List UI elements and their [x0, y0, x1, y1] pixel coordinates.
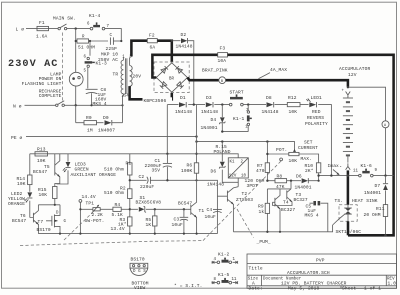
svg-text:1k: 1k — [259, 209, 265, 215]
svg-text:Title: Title — [249, 265, 263, 271]
transistor T2 — [237, 182, 239, 186]
svg-text:F2: F2 — [149, 32, 155, 38]
transistor T5 — [54, 162, 56, 175]
wire N line with switch — [25, 104, 123, 106]
transformer core — [124, 58, 126, 94]
svg-text:1N4007: 1N4007 — [98, 127, 115, 133]
svg-text:R7: R7 — [257, 163, 263, 169]
svg-text:PVP: PVP — [316, 257, 325, 263]
svg-text:MAX.: MAX. — [301, 156, 312, 162]
svg-text:1K: 1K — [146, 222, 152, 228]
svg-text:10uF: 10uF — [205, 214, 217, 220]
wire L line — [26, 29, 121, 41]
svg-text:POLARITY: POLARITY — [305, 121, 328, 127]
svg-text:10A: 10A — [218, 58, 227, 64]
svg-text:BC547: BC547 — [12, 218, 26, 224]
svg-text:20 OHM: 20 OHM — [364, 212, 381, 218]
resistor R6 — [196, 163, 198, 181]
resistor R14 — [28, 175, 32, 185]
capacitor C4 — [213, 208, 222, 210]
resistor R12 — [287, 103, 300, 107]
svg-text:BC547: BC547 — [178, 200, 192, 206]
svg-text:10K: 10K — [17, 181, 26, 187]
svg-text:BRAT_PINK: BRAT_PINK — [202, 67, 228, 73]
transistor T6 — [32, 213, 34, 223]
svg-text:TR: TR — [113, 72, 119, 78]
svg-text:BC327: BC327 — [294, 197, 308, 203]
svg-text:10K: 10K — [289, 109, 298, 115]
svg-text:5: 5 — [84, 70, 87, 74]
svg-text:R1: R1 — [126, 161, 132, 167]
capacitor C3 — [183, 208, 185, 210]
diode D0 — [112, 105, 123, 122]
wire PE line — [26, 136, 197, 138]
svg-text:BS170: BS170 — [37, 227, 51, 233]
svg-text:PE ø: PE ø — [11, 135, 23, 141]
bottom rail — [38, 233, 217, 235]
transistor T3 — [286, 190, 288, 199]
wire node row 141 — [197, 142, 295, 152]
svg-text:SW-POT.: SW-POT. — [85, 218, 105, 224]
fuse F3 — [218, 53, 228, 57]
svg-text:1N4001: 1N4001 — [201, 125, 218, 131]
connector circle B — [219, 77, 226, 84]
svg-text:MKS 4: MKS 4 — [93, 101, 107, 107]
bridge dashed box — [154, 62, 189, 93]
svg-text:C: C — [110, 34, 113, 38]
wire R8 row — [267, 180, 318, 182]
svg-text:10uF: 10uF — [172, 222, 184, 228]
left column wire — [29, 154, 31, 218]
resistor R10 — [316, 163, 320, 173]
thick wire F2 to bridge AC top — [157, 41, 172, 62]
svg-text:R4: R4 — [115, 202, 121, 208]
svg-text:1N4148: 1N4148 — [176, 44, 193, 50]
resistor R9 — [265, 203, 269, 213]
capacitor C8 — [86, 88, 98, 90]
svg-text:7: 7 — [107, 25, 110, 29]
fuse F1 — [37, 26, 49, 30]
main rail — [30, 154, 238, 158]
svg-text:KBPC3506: KBPC3506 — [144, 98, 167, 104]
capacitor C 225P — [114, 40, 122, 42]
svg-text:C2: C2 — [139, 174, 145, 180]
svg-text:D0: D0 — [103, 115, 109, 121]
svg-text:12V: 12V — [348, 72, 357, 78]
svg-text:10K: 10K — [37, 158, 46, 164]
svg-text:L ø: L ø — [16, 27, 25, 33]
diode D2 — [181, 38, 187, 43]
diode D3 — [206, 102, 213, 107]
svg-text:470: 470 — [256, 168, 265, 174]
wire row 180 — [130, 180, 218, 233]
bridge diode bottom-right — [177, 82, 184, 89]
bridge BR diamond — [156, 63, 187, 92]
svg-text:20V: 20V — [133, 73, 142, 79]
svg-text:35V: 35V — [152, 167, 161, 173]
thick wire secondary top to F2 — [131, 41, 147, 57]
svg-text:10K: 10K — [289, 158, 298, 164]
svg-text:C3: C3 — [174, 216, 180, 222]
svg-text:HEAT SINK: HEAT SINK — [352, 198, 378, 204]
svg-text:1N4148: 1N4148 — [262, 109, 279, 115]
svg-text:Sheet: Sheet — [342, 286, 356, 292]
diode D5 zener relay — [222, 142, 238, 183]
svg-text:1N4148: 1N4148 — [207, 181, 224, 187]
svg-text:ORANGE: ORANGE — [8, 201, 25, 207]
svg-text:VIEW: VIEW — [134, 285, 146, 291]
resistor R4 — [113, 207, 121, 211]
svg-text:D8: D8 — [266, 95, 272, 101]
bridge label KBPC3506 — [143, 97, 173, 103]
svg-text:R: R — [82, 35, 85, 39]
dashed mech link long — [20, 241, 203, 246]
svg-text:BR: BR — [169, 78, 175, 82]
svg-text:13.4V: 13.4V — [111, 226, 125, 232]
svg-text:CURRENT: CURRENT — [298, 145, 318, 151]
svg-text:2: 2 — [241, 160, 244, 164]
svg-text:225P: 225P — [106, 46, 118, 52]
svg-text:6A: 6A — [150, 44, 156, 50]
svg-text:T1: T1 — [199, 208, 205, 214]
svg-text:9: 9 — [375, 169, 378, 173]
diode D6 1N4001 — [302, 178, 308, 183]
svg-text:G: G — [64, 220, 67, 224]
svg-text:MKS 4: MKS 4 — [305, 212, 319, 218]
svg-text:AUXILIANT ORANGE: AUXILIANT ORANGE — [71, 172, 117, 178]
svg-text:T7: T7 — [38, 219, 44, 225]
svg-text:1: 1 — [233, 258, 236, 262]
resistor R15 — [53, 187, 57, 199]
svg-text:11: 11 — [353, 170, 359, 174]
svg-text:MAIN SW.: MAIN SW. — [53, 16, 76, 22]
svg-text:K1-5: K1-5 — [218, 272, 230, 278]
svg-text:D: D — [56, 212, 59, 216]
battery cells — [343, 98, 353, 155]
svg-text:F3: F3 — [220, 45, 226, 51]
svg-text:12V: 12V — [229, 174, 237, 178]
wire S1 row 209 — [130, 208, 188, 210]
thick wire secondary bottom to bridge AC bottom — [130, 86, 172, 99]
wire D1 D3 START row — [167, 105, 331, 176]
svg-text:K1: K1 — [230, 160, 236, 164]
trimmer SW-POT — [80, 208, 113, 210]
wire K1-6 row — [319, 175, 394, 177]
svg-text:10K: 10K — [39, 192, 48, 198]
bridge diode top-left — [161, 66, 168, 73]
svg-text:2K*: 2K* — [305, 168, 314, 174]
svg-text:1N4148: 1N4148 — [201, 109, 218, 115]
resistor R0 — [76, 105, 104, 122]
dashed link main switch — [62, 33, 64, 103]
svg-text:POT.: POT. — [276, 147, 287, 153]
svg-text:6: 6 — [84, 56, 87, 60]
svg-text:SET: SET — [304, 140, 313, 146]
transistor T1 — [190, 205, 192, 215]
thick wire bridge plus output — [187, 78, 348, 87]
wire battery plus sense — [348, 87, 386, 175]
svg-text:K1-1: K1-1 — [233, 116, 245, 122]
title block — [247, 254, 397, 288]
diode D7 — [385, 176, 387, 205]
capacitor C2 — [149, 177, 151, 184]
wire T2 emitter gate row — [233, 225, 332, 232]
wire T3 collector node — [267, 181, 291, 204]
bridge diode bottom-left — [160, 82, 167, 89]
capacitor C1 — [166, 154, 168, 181]
mosfet T7 — [51, 216, 53, 226]
test point TP1 — [79, 200, 82, 203]
thick bus F3 to right edge down — [228, 55, 394, 236]
svg-text:COMPLETE: COMPLETE — [39, 93, 62, 99]
transformer TR secondary — [129, 58, 131, 66]
svg-text:K1-3: K1-3 — [96, 60, 108, 66]
svg-text:D6: D6 — [211, 169, 217, 175]
svg-text:1 of 1: 1 of 1 — [364, 286, 381, 292]
svg-text:BC327: BC327 — [281, 207, 295, 213]
svg-text:R11: R11 — [376, 206, 385, 212]
resistor R 51 OHM — [76, 40, 108, 42]
dashed link PUM — [237, 209, 254, 238]
svg-text:510 Ohm: 510 Ohm — [104, 190, 124, 196]
thick wire triac to bottom bus — [347, 221, 350, 235]
LED1 — [309, 102, 316, 107]
svg-text:6: 6 — [87, 23, 90, 27]
svg-text:LED1: LED1 — [311, 95, 323, 101]
svg-text:D2: D2 — [181, 32, 187, 38]
svg-text:R9: R9 — [258, 203, 264, 209]
LED3 — [57, 154, 69, 184]
svg-text:1.6A: 1.6A — [36, 34, 48, 40]
svg-text:K1-6: K1-6 — [361, 163, 373, 169]
svg-text:TP1: TP1 — [86, 201, 95, 207]
svg-text:R6: R6 — [187, 163, 193, 169]
column R1 R2 R3 — [129, 154, 131, 234]
svg-text:2.2K: 2.2K — [92, 212, 104, 218]
svg-text:REVERS: REVERS — [307, 115, 324, 121]
svg-text:RED: RED — [312, 109, 321, 115]
svg-text:GREEN: GREEN — [75, 166, 89, 172]
svg-text:1: 1 — [245, 125, 248, 129]
resistor R13 — [35, 152, 48, 156]
LED2 — [27, 192, 32, 197]
switch K1-3 — [88, 41, 90, 89]
transistor T4 — [274, 198, 276, 207]
svg-text:D1: D1 — [180, 95, 186, 101]
svg-text:10: 10 — [241, 174, 247, 178]
svg-text:R12: R12 — [288, 95, 297, 101]
resistor R1 — [128, 163, 132, 175]
svg-text:BS170: BS170 — [131, 257, 145, 263]
lamp neon — [69, 72, 83, 86]
diode D1 — [179, 102, 186, 107]
svg-text:TS.: TS. — [335, 198, 344, 204]
svg-text:D7: D7 — [375, 183, 381, 189]
wire lamp column — [75, 29, 77, 106]
svg-text:BZX85C6V8: BZX85C6V8 — [136, 200, 162, 206]
svg-text:MKP 10: MKP 10 — [101, 52, 118, 58]
svg-text:14.4V: 14.4V — [82, 194, 96, 200]
svg-text:51 OHM: 51 OHM — [78, 44, 95, 50]
svg-text:ACCUMULATOR: ACCUMULATOR — [339, 66, 370, 72]
svg-text:T3: T3 — [296, 192, 302, 198]
svg-text:220uF: 220uF — [140, 184, 154, 190]
svg-text:R8: R8 — [277, 173, 283, 179]
thick wire battery minus down — [347, 170, 350, 204]
resistor R8 — [275, 179, 287, 183]
svg-text:+: + — [342, 89, 345, 93]
svg-text:D4: D4 — [211, 117, 217, 123]
bridge diode top-right — [175, 66, 182, 73]
svg-text:1N4001: 1N4001 — [295, 184, 312, 190]
svg-text:D3: D3 — [206, 95, 212, 101]
svg-text:4A_MAX: 4A_MAX — [270, 67, 287, 73]
svg-text:D G S: D G S — [133, 270, 146, 274]
svg-text:1N4001: 1N4001 — [364, 190, 381, 196]
svg-text:1M: 1M — [87, 127, 93, 133]
svg-text:100K: 100K — [181, 168, 193, 174]
svg-text:T4: T4 — [283, 200, 289, 206]
switch K1-1 — [247, 105, 249, 132]
svg-text:1N4148: 1N4148 — [175, 109, 192, 115]
svg-text:N ø: N ø — [13, 104, 22, 110]
svg-text:R0: R0 — [86, 115, 92, 121]
diode D4 zener — [221, 105, 223, 132]
wire D2 branch — [173, 41, 194, 105]
svg-text:K1-4: K1-4 — [89, 13, 101, 19]
svg-text:FLASHING LIGHT: FLASHING LIGHT — [22, 81, 62, 87]
svg-text:1.0: 1.0 — [388, 281, 397, 287]
svg-text:R13: R13 — [37, 147, 46, 153]
resistor R11 — [383, 205, 387, 217]
svg-text:D6: D6 — [296, 173, 302, 179]
dashed link to sw-pot — [64, 213, 93, 241]
capacitor C5 — [310, 203, 328, 232]
svg-text:Date:: Date: — [249, 286, 263, 292]
resistor R5 — [154, 208, 156, 210]
node L junction — [75, 27, 77, 29]
ammeter — [382, 121, 389, 128]
svg-text:R10: R10 — [305, 163, 314, 169]
svg-text:May 5, 2018: May 5, 2018 — [288, 286, 319, 292]
wire K1-1 bottom row — [222, 131, 248, 133]
resistor R2 — [128, 189, 132, 199]
dashed link to pot — [203, 161, 281, 241]
svg-text:C4: C4 — [207, 207, 213, 213]
resistor R7 — [266, 142, 268, 181]
thick wire bridge minus to F3 bus — [152, 55, 217, 78]
wire D2 column to rail — [196, 105, 198, 163]
svg-text:K1-2: K1-2 — [218, 252, 230, 258]
wire T6 collector node — [38, 204, 60, 206]
svg-text:_PUM_: _PUM_ — [256, 239, 271, 245]
diode D8 — [267, 102, 274, 107]
zener S1 — [139, 207, 145, 212]
resistor R3 — [128, 217, 132, 226]
svg-text:ACCUMULATOR.SCH: ACCUMULATOR.SCH — [287, 270, 330, 276]
svg-text:Imax.: Imax. — [328, 163, 342, 169]
svg-text:BC547: BC547 — [33, 169, 47, 175]
svg-text:510 Ohm: 510 Ohm — [104, 166, 124, 172]
fuse F2 — [147, 39, 157, 43]
svg-text:* = S.I.T.: * = S.I.T. — [174, 283, 203, 289]
svg-text:F1: F1 — [39, 20, 45, 26]
svg-text:230V AC: 230V AC — [8, 59, 59, 70]
